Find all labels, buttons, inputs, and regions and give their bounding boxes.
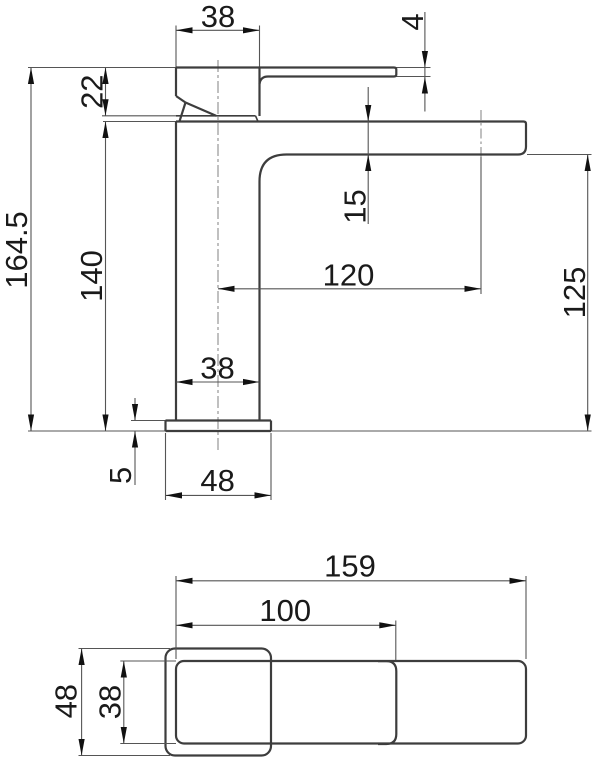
wire extension line 164.5 top — [28, 67, 176, 69]
wire extension line spout bottom right — [527, 154, 592, 156]
wire extension line 48 bottom-view top — [79, 648, 171, 650]
svg-text:100: 100 — [259, 593, 311, 628]
svg-text:15: 15 — [337, 189, 372, 223]
dimension 38 top — [176, 0, 260, 34]
wire extension line 100 right — [395, 621, 397, 661]
wire extension line outlet axis — [480, 157, 482, 294]
faucet handle base cap — [176, 116, 258, 122]
dimension 120 spout reach — [218, 258, 481, 293]
dimension 38 bottom view — [93, 661, 128, 744]
svg-text:159: 159 — [324, 549, 376, 584]
bottom view handle footprint end cap — [378, 661, 396, 744]
wire extension line base top left — [131, 420, 166, 422]
svg-text:5: 5 — [103, 467, 138, 484]
dimension 100 handle reach — [176, 593, 396, 628]
dimension 159 overall length — [176, 549, 526, 584]
svg-text:38: 38 — [200, 351, 234, 386]
dimension 4 lever thickness — [395, 12, 430, 112]
svg-text:164.5: 164.5 — [0, 211, 34, 289]
wire extension line 159 left — [175, 576, 177, 659]
wire extension line lever top right — [396, 67, 431, 69]
svg-text:38: 38 — [201, 0, 235, 34]
dimension 48 base width — [166, 463, 272, 499]
dimension 5 base height — [103, 398, 138, 485]
dimension 164.5 overall height — [0, 68, 34, 432]
dimension 48 bottom view — [49, 649, 85, 756]
wire baseline extension — [28, 430, 592, 432]
dimension 38 body width — [176, 351, 260, 386]
svg-text:38: 38 — [93, 685, 128, 719]
bottom view body and spout footprint — [176, 661, 526, 744]
dimension 22 handle height — [75, 68, 110, 116]
faucet body and spout outline — [176, 122, 526, 421]
faucet handle lever — [260, 68, 397, 85]
svg-text:120: 120 — [323, 258, 375, 293]
faucet handle outline — [176, 68, 260, 122]
wire extension line deck top left — [102, 115, 176, 117]
svg-text:48: 48 — [49, 684, 84, 718]
bottom view base square — [166, 649, 272, 756]
svg-text:125: 125 — [557, 267, 592, 319]
wire extension line 159 right — [525, 576, 527, 659]
wire extension line 38 bottom-view top — [120, 660, 176, 662]
centerline faucet axis — [217, 60, 219, 452]
centerline outlet axis — [480, 110, 482, 157]
svg-text:140: 140 — [74, 250, 109, 302]
dimension 15 spout thickness — [337, 87, 372, 224]
faucet base plate — [166, 421, 272, 432]
wire extension line 38 bottom-view bottom — [120, 743, 176, 745]
wire extension line lever bottom right — [396, 76, 431, 78]
wire extension line base left below — [165, 433, 167, 500]
svg-text:22: 22 — [75, 74, 110, 108]
wire extension line spout top left — [103, 121, 176, 123]
dimension 140 body height — [74, 122, 109, 432]
wire extension line base right below — [270, 433, 272, 500]
wire extension line 48 bottom-view bottom — [79, 755, 171, 757]
svg-text:4: 4 — [395, 13, 430, 30]
dimension 125 spout height — [557, 155, 592, 432]
svg-text:48: 48 — [200, 463, 234, 498]
wire extension line 38-top left — [175, 26, 177, 68]
wire extension line 38-top right — [259, 26, 261, 68]
